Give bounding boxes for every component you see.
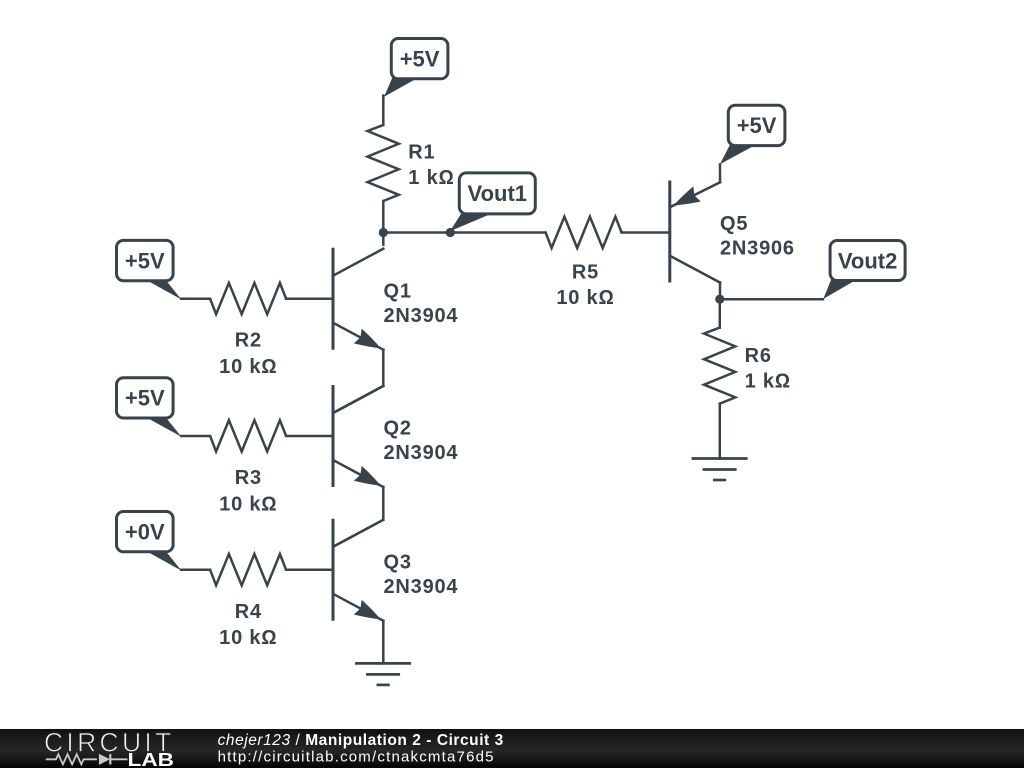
power +0V callout (input R4) [117, 512, 182, 571]
svg-text:LAB: LAB [128, 750, 175, 768]
svg-text:Vout1: Vout1 [468, 181, 527, 206]
label Q3 2N3904 [384, 551, 459, 598]
wire Q3 emitter to ground [382, 621, 385, 664]
node Q5 collector / Vout2 / R6 [715, 295, 724, 304]
svg-text:Q3: Q3 [384, 551, 412, 573]
transistor Q3 2N3904 [333, 519, 383, 621]
power +5V callout (top) [384, 39, 448, 97]
wire Q1 emitter to Q2 collector [333, 350, 383, 413]
svg-text:Q5: Q5 [720, 213, 748, 235]
svg-text:Q2: Q2 [384, 418, 412, 440]
label Q2 2N3904 [384, 418, 459, 465]
svg-text:R5: R5 [572, 262, 599, 284]
wire Q5 collector to node [719, 283, 722, 300]
node Vout1 junction [446, 228, 455, 237]
label R4 10 kOhm [219, 601, 277, 649]
svg-text:R3: R3 [235, 467, 262, 489]
power +5V callout (input R2) [117, 240, 182, 299]
wire +0V to R4 [181, 569, 210, 572]
Vout2 callout [823, 241, 905, 300]
label Q5 2N3906 [720, 213, 795, 260]
svg-text:2N3904: 2N3904 [384, 305, 459, 327]
label R3 10 kOhm [219, 467, 277, 515]
wire +5V to R1 [382, 96, 385, 126]
svg-text:R6: R6 [745, 345, 772, 367]
svg-text:R1: R1 [408, 142, 435, 164]
resistor R6 [704, 328, 735, 404]
wire R4 to Q3 base [286, 569, 332, 572]
node junction at R1/Q1 collector [379, 228, 388, 237]
svg-text:Vout2: Vout2 [838, 248, 897, 273]
svg-text:10 kΩ: 10 kΩ [219, 356, 277, 378]
wire +5V to R3 [181, 435, 210, 438]
footer bar [0, 729, 1024, 768]
wire Q5 emitter to +5V [719, 165, 722, 183]
wire R5 to Q5 base [622, 231, 670, 234]
svg-text:http://circuitlab.com/ctnakcmt: http://circuitlab.com/ctnakcmta76d5 [218, 749, 495, 766]
Vout1 callout [450, 173, 535, 231]
label R5 10 kOhm [556, 262, 614, 310]
CircuitLab logo: resistor-diode glyph [46, 754, 128, 765]
transistor Q2 2N3904 [333, 385, 383, 487]
resistor R4 [210, 554, 286, 585]
svg-text:1 kΩ: 1 kΩ [745, 371, 791, 393]
ground (below R6) [692, 459, 748, 481]
svg-text:10 kΩ: 10 kΩ [556, 287, 614, 309]
svg-text:R4: R4 [235, 601, 262, 623]
wire node to R6 [719, 299, 722, 327]
wire R6 to ground [719, 404, 722, 459]
svg-text:2N3904: 2N3904 [384, 576, 459, 598]
wire node to R5 [383, 231, 545, 234]
label R6 1 kOhm [745, 345, 791, 393]
wire R2 to Q1 base [286, 297, 332, 300]
resistor R5 [546, 217, 622, 248]
transistor Q5 2N3906 [670, 181, 720, 283]
resistor R2 [210, 283, 286, 314]
wire node to Vout2 [720, 298, 823, 301]
svg-text:+5V: +5V [125, 248, 165, 273]
svg-text:2N3906: 2N3906 [720, 238, 795, 260]
wire +5V to R2 [181, 297, 210, 300]
label Q1 2N3904 [384, 280, 459, 327]
power +5V callout (input R3) [117, 378, 182, 437]
svg-text:+5V: +5V [737, 113, 777, 138]
transistor Q1 2N3904 [333, 248, 383, 350]
label R1 1 kOhm [408, 142, 454, 190]
resistor R1 [368, 125, 399, 201]
power +5V callout (Q5 emitter) [720, 105, 785, 164]
wire Q2 emitter to Q3 collector [333, 487, 383, 547]
resistor R3 [210, 420, 286, 451]
svg-text:chejer123 / Manipulation 2 - C: chejer123 / Manipulation 2 - Circuit 3 [218, 732, 504, 749]
svg-text:+5V: +5V [400, 47, 440, 72]
svg-text:R2: R2 [235, 330, 262, 352]
svg-text:1 kΩ: 1 kΩ [408, 167, 454, 189]
svg-text:+5V: +5V [125, 386, 165, 411]
wire Q1 collector to node [382, 233, 385, 245]
svg-text:+0V: +0V [125, 519, 165, 544]
svg-text:Q1: Q1 [384, 280, 412, 302]
svg-text:2N3904: 2N3904 [384, 442, 459, 464]
ground (emitter of Q3) [355, 663, 411, 685]
svg-text:10 kΩ: 10 kΩ [219, 627, 277, 649]
label R2 10 kOhm [219, 330, 277, 378]
svg-text:10 kΩ: 10 kΩ [219, 493, 277, 515]
wire R3 to Q2 base [286, 435, 332, 438]
wire R1 to node [382, 201, 385, 233]
